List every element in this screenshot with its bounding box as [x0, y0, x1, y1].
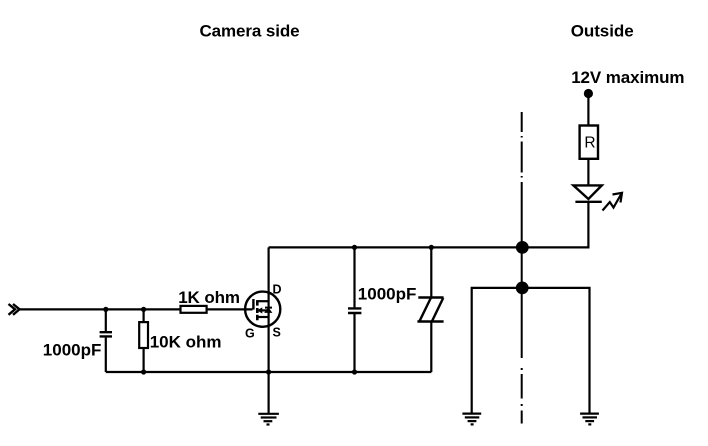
resistor R (boxed)	[580, 126, 598, 159]
junction dot (10K resistor tap)	[141, 307, 146, 312]
MOSFET body diode triangle	[265, 308, 271, 312]
zener/TVS left diagonal	[420, 298, 431, 321]
svg-text:G: G	[245, 327, 255, 341]
capacitor 1000pF (left) top lead	[105, 309, 107, 331]
wire: 1K resistor to MOSFET gate	[207, 308, 253, 310]
resistor 10K ohm (boxed, vertical)	[143, 309, 145, 322]
bottom ground bus wire	[106, 371, 432, 373]
LED cathode bar	[575, 201, 601, 203]
svg-text:Camera side: Camera side	[200, 22, 300, 41]
wire: MOSFET source to ground	[268, 372, 270, 414]
terminal dot (12V supply)	[584, 89, 593, 98]
zener/TVS top bar	[418, 296, 443, 298]
junction dot (10K bottom)	[141, 369, 146, 374]
wire: drain rail down to MOSFET drain	[268, 247, 270, 292]
svg-text:12V maximum: 12V maximum	[571, 68, 684, 87]
ground symbol (right outside)	[580, 414, 599, 425]
svg-text:R: R	[584, 135, 595, 152]
enclosure boundary dash-dot line	[521, 112, 523, 424]
feedthrough terminal dot (upper, on boundary)	[516, 241, 529, 254]
input chevron (signal source)	[9, 304, 16, 315]
capacitor 1000pF (right) bottom lead	[353, 314, 355, 372]
MOSFET gate electrode bar	[252, 299, 254, 310]
capacitor 1000pF (right) plates	[348, 308, 361, 313]
MOSFET Q1 body circle	[245, 292, 280, 327]
MOSFET channel bar segments	[256, 300, 259, 320]
svg-text:D: D	[273, 283, 282, 297]
LED emission zigzag arrow	[603, 194, 622, 211]
zener/TVS bottom lead to ground bus	[430, 322, 432, 373]
MOSFET body diode bar	[265, 307, 272, 309]
svg-text:S: S	[273, 326, 281, 340]
MOSFET source internal connection	[257, 316, 268, 318]
capacitor 1000pF (left) bottom lead	[105, 338, 107, 372]
zener/TVS bottom bar	[417, 320, 443, 322]
junction dot (zener tap on drain rail)	[429, 245, 434, 250]
wire: input to 1K resistor	[20, 308, 181, 310]
wire: supply dot to resistor R	[587, 96, 589, 126]
resistor 1K ohm (boxed, horizontal)	[181, 306, 207, 313]
ground symbol (left outside)	[462, 414, 481, 425]
junction dot (left capacitor tap)	[103, 307, 108, 312]
junction dot (MOSFET source on bus)	[266, 369, 271, 374]
zener/TVS top lead	[430, 247, 432, 297]
wire: LED cathode down and left to drain rail	[269, 202, 589, 248]
capacitor 1000pF (right) top lead	[353, 247, 355, 307]
ground return wire (outside)	[472, 288, 590, 414]
LED D1 (infrared emitter)	[573, 185, 601, 199]
MOSFET body arrow (points to channel)	[258, 308, 262, 312]
junction dot (capacitor tap on drain rail)	[352, 245, 357, 250]
MOSFET vertical drain-source line through circle	[268, 292, 270, 372]
svg-text:10K ohm: 10K ohm	[150, 332, 222, 351]
svg-text:1K ohm: 1K ohm	[178, 288, 240, 307]
svg-text:Outside: Outside	[571, 22, 634, 41]
feedthrough terminal dot (lower, on boundary)	[516, 282, 529, 295]
capacitor 1000pF (left) plates	[100, 332, 112, 336]
zener/TVS right diagonal	[432, 298, 443, 321]
svg-text:1000pF: 1000pF	[358, 285, 417, 304]
junction dot (right capacitor bottom)	[352, 369, 357, 374]
svg-text:1000pF: 1000pF	[43, 341, 102, 360]
ground symbol (camera side)	[258, 414, 279, 425]
MOSFET drain internal connection	[257, 300, 268, 302]
wire: resistor R to LED	[587, 159, 589, 186]
